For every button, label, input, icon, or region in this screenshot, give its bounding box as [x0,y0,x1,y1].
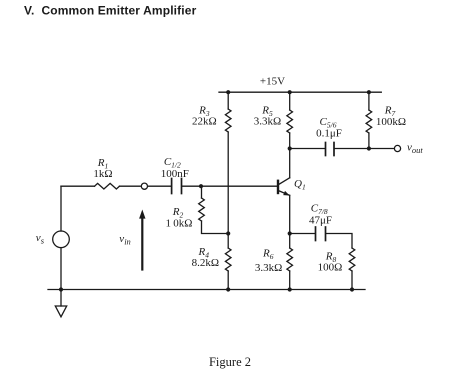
transistor Q1 [277,181,279,193]
node dot R2-R3-R4 junction [226,231,230,235]
node dot rail-R5 [288,90,292,94]
wire input line left segment [61,185,95,187]
resistor R5 [287,110,293,133]
svg-text:100kΩ: 100kΩ [376,116,406,128]
ground [55,306,66,317]
resistor R8 [349,248,355,271]
wire collector up [289,149,291,178]
wire R1 to C1/2 [120,185,172,187]
svg-text:8.2kΩ: 8.2kΩ [192,257,219,269]
capacitor C5/6 [325,143,327,156]
svg-text:Figure 2: Figure 2 [209,355,251,369]
wire R5 to collector node [289,133,291,149]
wire rail to R5 [289,92,291,110]
capacitor C1/2 [171,179,173,194]
wire emitter node to C7/8 [290,233,315,235]
svg-text:47μF: 47μF [309,214,332,226]
resistor R4 [225,248,231,271]
svg-text:Q1: Q1 [294,178,306,192]
wire emitter down [289,195,291,233]
wire R6 to ground rail [289,271,291,290]
terminal vout circle [394,145,400,151]
capacitor C7/8 [315,227,317,241]
wire R8 to ground rail [351,271,353,290]
svg-text:100Ω: 100Ω [318,262,343,274]
svg-text:22kΩ: 22kΩ [192,115,217,127]
node dot R2 tap [199,184,203,188]
wire +15V top rail [219,91,381,93]
svg-text:1kΩ: 1kΩ [93,168,112,180]
wire ground stem [60,290,62,307]
wire R2 bottom jog [202,221,229,234]
annotation vin arrow [141,217,143,270]
wire vs to ground rail [60,248,62,290]
svg-text:vout: vout [407,141,423,155]
wire R4 to ground rail [227,271,229,290]
wire junction to R4 [227,234,229,249]
svg-text:+15V: +15V [260,76,285,88]
node dot rail-R3 [226,90,230,94]
wire C5/6 to vout terminal [335,148,394,150]
terminal input node circle [141,183,147,189]
svg-text:vin: vin [119,233,131,247]
wire R7 to vout node [368,133,370,149]
node dot rail-R8 [350,287,354,291]
wire rail to R3 [227,92,229,109]
resistor R1 [95,183,120,189]
resistor R6 [287,248,293,271]
wire rail to R7 [368,92,370,110]
wire ground rail [48,289,365,291]
node dot rail-R4 [226,287,230,291]
resistor R7 [366,110,372,133]
node dot rail-R7 [367,90,371,94]
resistor R2 [199,198,205,221]
resistor R3 [225,109,231,132]
svg-text:3.3kΩ: 3.3kΩ [254,115,281,127]
node dot R7-vout [367,146,371,150]
svg-text:vs: vs [36,232,45,246]
source vs [53,231,70,248]
wire R2 tap down [201,186,203,198]
wire emitter node to R6 [289,234,291,249]
svg-text:0.1μF: 0.1μF [316,128,342,140]
wire C7/8 to R8 top [326,234,352,249]
wire collector node to C5/6 left plate [290,148,325,150]
node dot rail-vs [59,287,63,291]
svg-text:100nF: 100nF [161,168,189,180]
wire R3 to junction [227,132,229,234]
node dot rail-R6 [288,287,292,291]
svg-text:V. Common Emitter Amplifier: V. Common Emitter Amplifier [24,4,197,18]
node dot emitter [288,231,292,235]
svg-text:R6: R6 [262,248,274,262]
wire C1/2 to base [182,185,278,187]
svg-text:3.3kΩ: 3.3kΩ [255,262,282,274]
svg-text:1 0kΩ: 1 0kΩ [166,217,193,229]
node dot collector [288,146,292,150]
wire vs branch top [60,186,62,231]
